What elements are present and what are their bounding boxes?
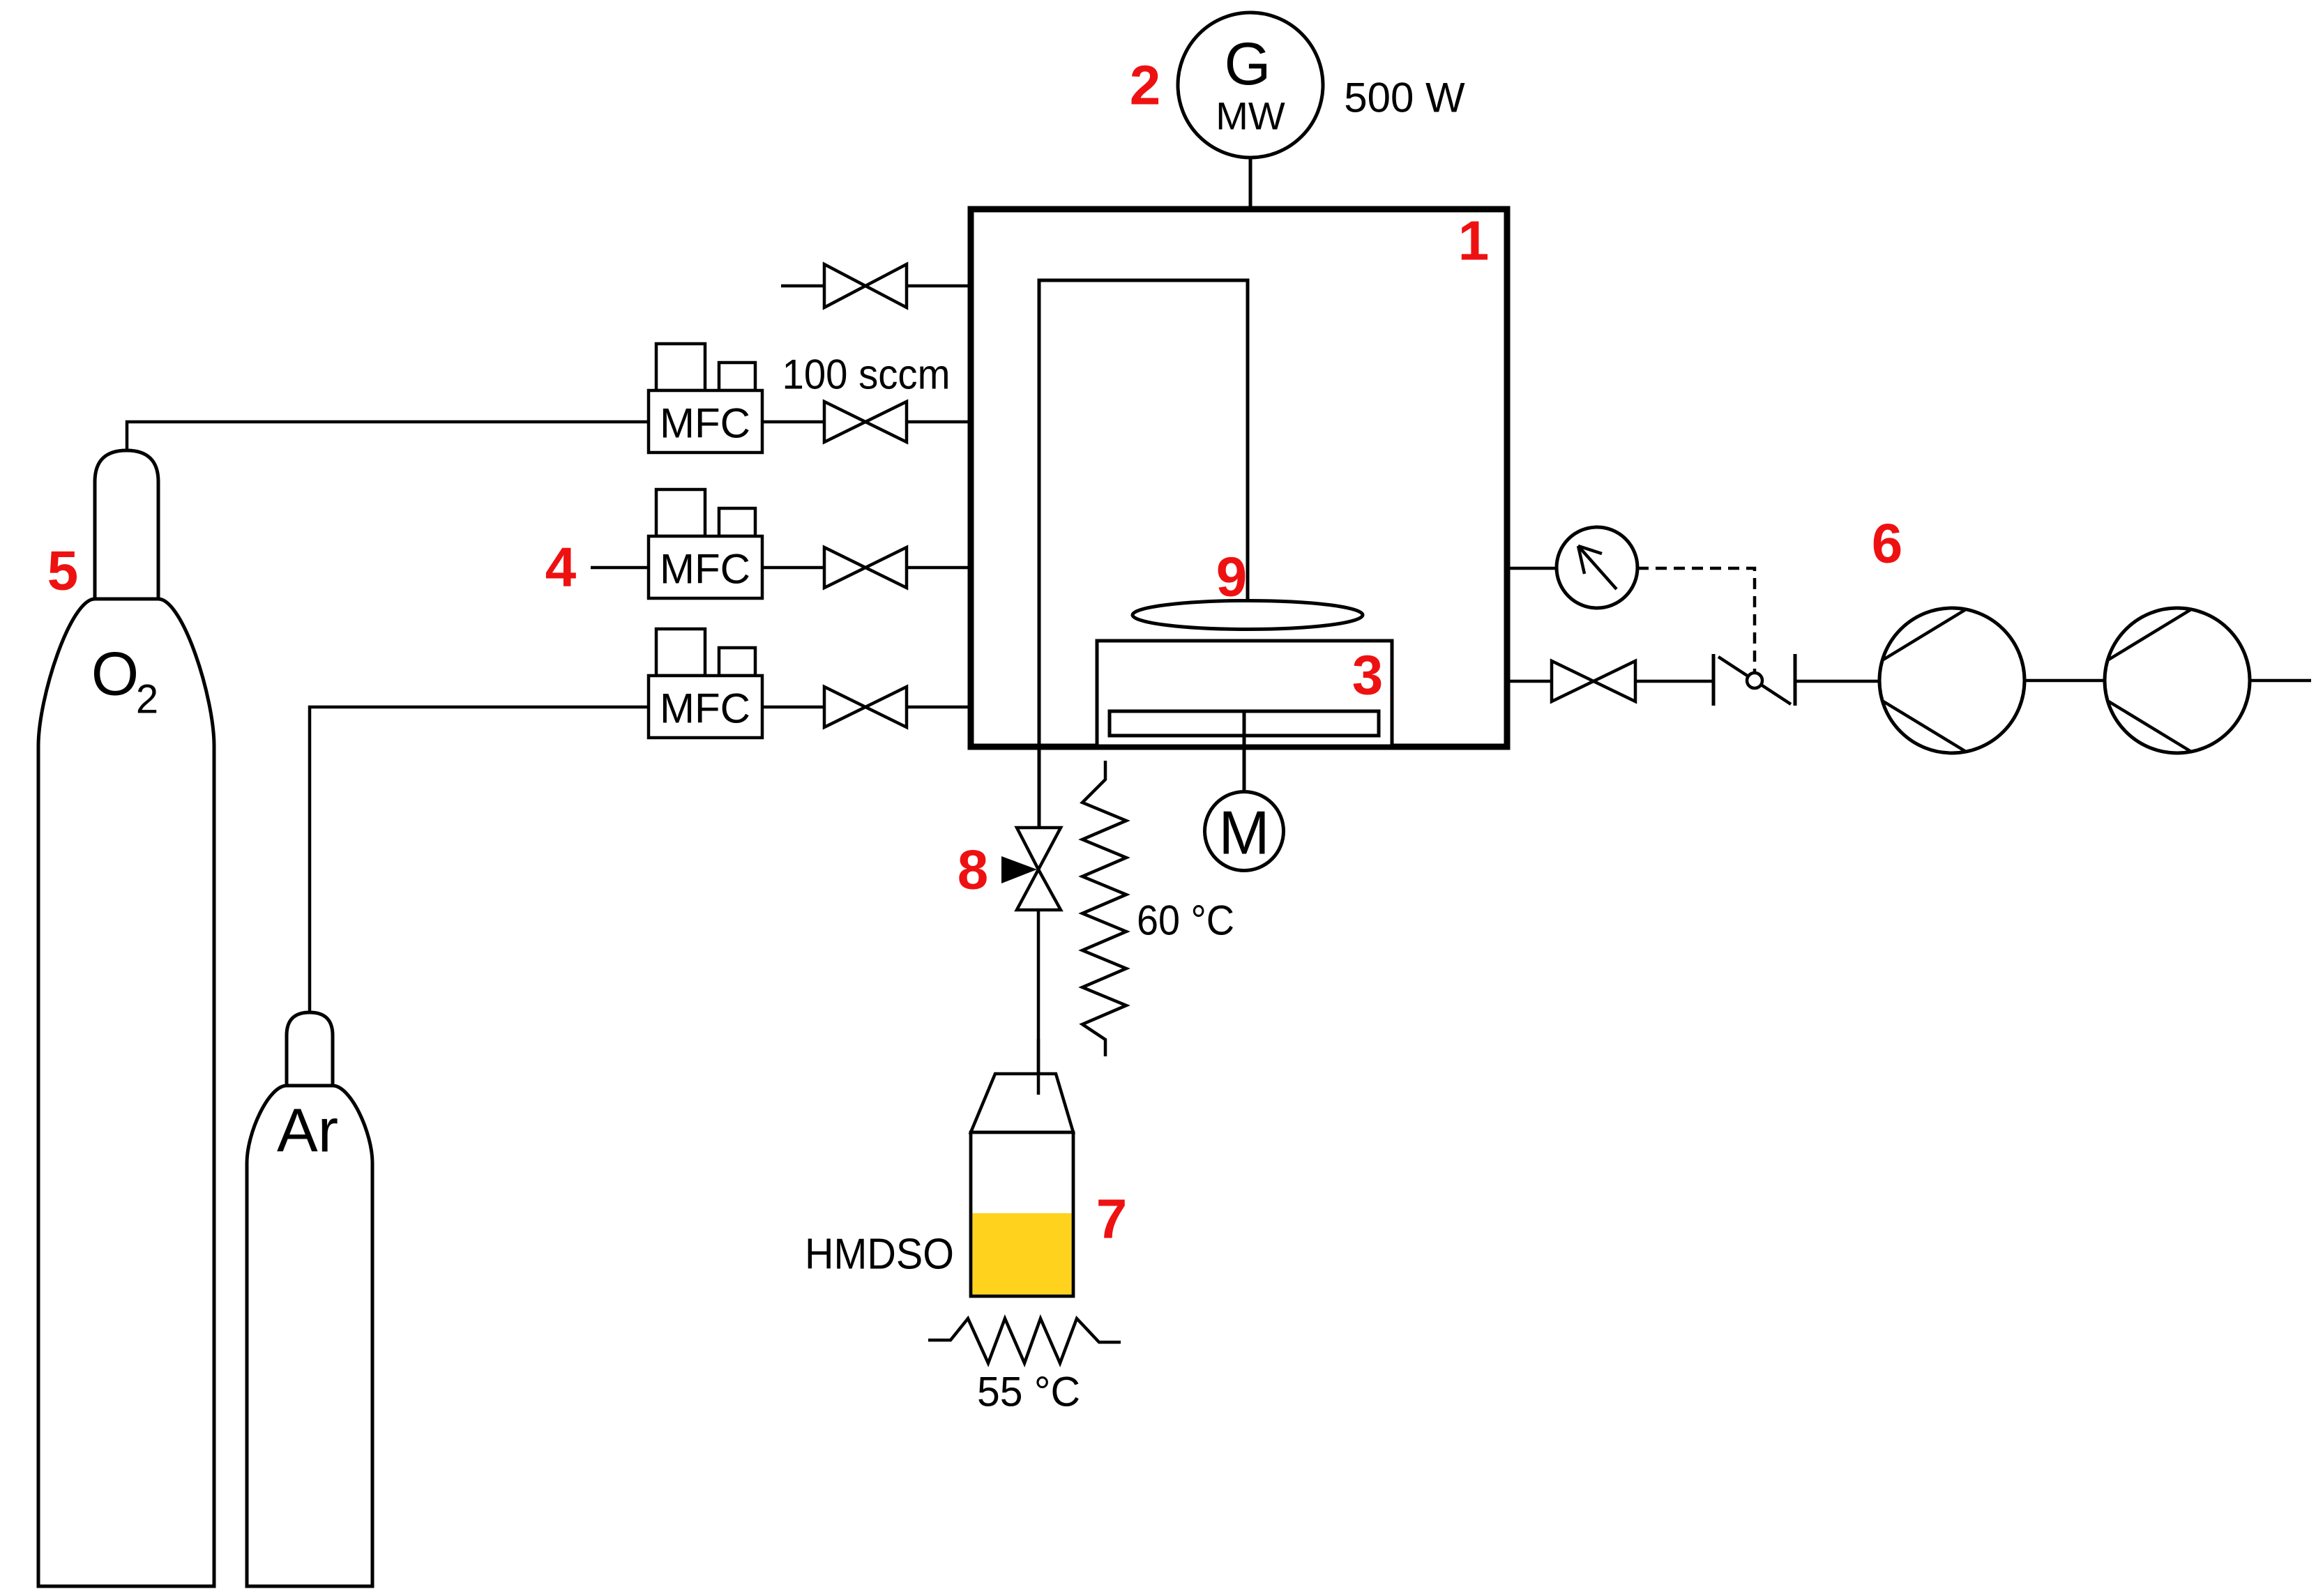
svg-text:8: 8	[958, 839, 989, 901]
svg-text:7: 7	[1096, 1188, 1128, 1250]
svg-text:2: 2	[136, 677, 158, 722]
isolation switch symbol	[1713, 654, 1795, 706]
heater bar inside stage	[1110, 711, 1379, 736]
heater coil 60 C along feed line	[1082, 761, 1126, 1056]
HMDSO bubbler bottle (7)	[971, 1074, 1073, 1296]
valve after MFC1	[762, 420, 824, 424]
svg-text:4: 4	[545, 536, 577, 598]
svg-text:100 sccm: 100 sccm	[782, 351, 951, 398]
heater coil 55 C under bottle	[928, 1318, 1121, 1363]
wire: Ar cylinder to MFC3	[310, 707, 649, 1012]
svg-text:5: 5	[47, 540, 79, 602]
MFC group row 1 (O2 line)	[649, 344, 762, 453]
svg-text:9: 9	[1216, 546, 1248, 608]
svg-text:MFC: MFC	[660, 546, 750, 593]
svg-text:6: 6	[1872, 512, 1903, 575]
O2 gas cylinder (5)	[38, 450, 214, 1586]
precursor valve 8 (vertical)	[1017, 828, 1061, 869]
MFC group row 3 (Ar line)	[649, 629, 762, 738]
wire: pump 1 to pump 2	[2024, 679, 2105, 683]
svg-text:G: G	[1225, 31, 1271, 98]
heated stage box (3)	[1097, 641, 1392, 746]
vacuum pump 2	[2105, 608, 2250, 753]
wire: generator to chamber top	[1249, 157, 1252, 211]
wire: pump 2 exhaust	[2250, 679, 2311, 683]
MFC group row 2	[649, 489, 762, 598]
substrate ellipse (9)	[1133, 601, 1363, 630]
svg-text:60 °C: 60 °C	[1137, 897, 1234, 944]
svg-text:M: M	[1218, 798, 1269, 867]
chamber 1 (vacuum chamber)	[971, 209, 1507, 747]
stub wire with red 4	[591, 566, 649, 570]
wire: O2 cylinder to MFC1	[127, 422, 649, 450]
wire: valve 8 to bubbler	[1037, 910, 1040, 1095]
svg-text:Ar: Ar	[277, 1096, 338, 1165]
valve actuator solid triangle	[1001, 856, 1037, 883]
valve after MFC3	[762, 706, 824, 709]
svg-text:1: 1	[1458, 210, 1490, 272]
throttle valve	[1552, 661, 1594, 701]
dip tube into bottle	[1037, 1039, 1040, 1095]
dashed control line gauge to switch	[1637, 568, 1755, 674]
wire: valve to switch	[1635, 680, 1713, 683]
wire: chamber to throttle valve	[1510, 680, 1552, 683]
wire: stage to motor	[1243, 711, 1246, 792]
svg-text:500 W: 500 W	[1344, 75, 1465, 121]
wire: chamber to pressure gauge	[1510, 567, 1557, 570]
Ar gas cylinder	[247, 1012, 372, 1586]
motor M	[1205, 792, 1284, 871]
vacuum pump 1 (6)	[1879, 608, 2024, 753]
microwave generator U2 (circle G/MW)	[1178, 13, 1323, 158]
pressure gauge	[1557, 527, 1637, 608]
valve after MFC2	[762, 566, 824, 570]
wire: switch to pump 1	[1795, 680, 1879, 683]
top vent valve V1 with stub wire	[781, 284, 824, 288]
svg-text:55 °C: 55 °C	[977, 1369, 1080, 1415]
quartz tube (inverted U inside chamber)	[1039, 280, 1248, 828]
svg-text:O: O	[91, 639, 139, 708]
svg-text:MW: MW	[1216, 94, 1285, 138]
svg-text:MFC: MFC	[660, 400, 750, 447]
svg-text:2: 2	[1130, 54, 1161, 116]
svg-text:3: 3	[1352, 644, 1384, 706]
svg-text:HMDSO: HMDSO	[805, 1231, 954, 1279]
svg-text:MFC: MFC	[660, 685, 750, 732]
